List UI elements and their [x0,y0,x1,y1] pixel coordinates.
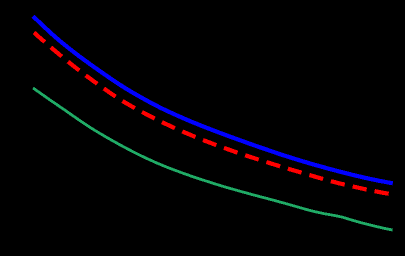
red dashed curve [34,33,389,194]
green solid curve [33,88,393,230]
blue solid curve [33,16,393,183]
